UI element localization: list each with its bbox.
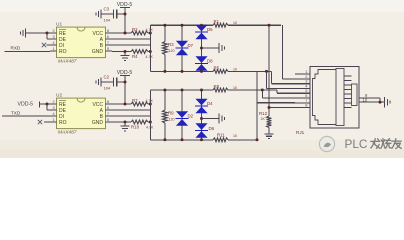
wire	[47, 33, 50, 39]
svg-text:C2: C2	[104, 75, 110, 80]
wire GND row	[112, 51, 131, 53]
IC U2 MAX487 RS-485 transceiver	[50, 92, 112, 135]
resistor R5	[213, 65, 237, 73]
wire B1 down	[256, 71, 258, 102]
node TXD	[11, 110, 21, 115]
wire GND row	[112, 121, 131, 123]
svg-text:R2: R2	[132, 27, 138, 32]
junction	[46, 103, 49, 106]
watermark text PLC fans	[345, 137, 402, 151]
svg-text:RO: RO	[59, 120, 67, 126]
junction	[163, 138, 166, 141]
connector RJ1 contact carrier	[336, 69, 344, 126]
resistor R8	[213, 84, 237, 92]
junction	[268, 106, 271, 109]
svg-text:TXD: TXD	[11, 110, 21, 115]
svg-text:R7: R7	[132, 98, 138, 103]
connector RJ1 pins 1-8	[295, 69, 310, 108]
wire top rail A	[150, 24, 213, 26]
svg-text:D7: D7	[188, 43, 194, 48]
background paper	[0, 0, 404, 158]
resistor R10	[131, 120, 154, 129]
junction	[200, 138, 203, 141]
wire	[228, 89, 277, 91]
wire	[228, 70, 272, 72]
ground (RJ45 shield)	[385, 97, 391, 107]
wire to ground	[202, 118, 220, 120]
junction	[149, 32, 152, 35]
junction	[200, 47, 203, 50]
watermark logo circle	[319, 136, 334, 151]
svg-text:10: 10	[233, 21, 237, 25]
wire RE	[26, 32, 51, 34]
svg-text:2: 2	[53, 29, 55, 33]
svg-text:MAX487: MAX487	[58, 130, 77, 136]
connector RJ1 latch	[352, 84, 358, 106]
wire VCC row	[112, 103, 131, 105]
capacitor C2	[104, 75, 117, 91]
svg-text:1K: 1K	[261, 117, 266, 121]
junction	[181, 138, 184, 141]
IC U1 MAX487 RS-485 transceiver	[50, 21, 112, 64]
ground (top decoupling)	[96, 10, 101, 19]
svg-text:RXD: RXD	[11, 46, 21, 51]
svg-text:5: 5	[107, 47, 109, 51]
TVS diode D4	[195, 90, 213, 119]
svg-text:R1: R1	[214, 19, 220, 24]
wire	[228, 139, 258, 141]
wire	[148, 32, 150, 34]
junction	[149, 103, 152, 106]
svg-text:5: 5	[107, 118, 109, 122]
svg-text:GND: GND	[92, 49, 104, 55]
wire	[101, 81, 114, 83]
resistor R12 (bias)	[259, 108, 271, 134]
svg-text:U1: U1	[56, 21, 62, 27]
wire A row	[112, 38, 150, 40]
junction	[200, 89, 203, 92]
svg-text:7: 7	[107, 41, 109, 45]
junction	[46, 32, 49, 35]
wire RO to RXD	[5, 51, 51, 53]
junction	[256, 138, 259, 141]
wire B row	[112, 44, 150, 46]
svg-text:10: 10	[363, 97, 368, 102]
junction	[124, 121, 127, 124]
svg-text:R9: R9	[168, 111, 174, 116]
junction	[200, 117, 203, 120]
resistor R1	[213, 19, 237, 27]
junction	[268, 24, 271, 27]
junction	[163, 89, 166, 92]
junction	[261, 89, 264, 92]
ground (RE/DE tie)	[20, 29, 25, 38]
svg-text:4: 4	[53, 112, 55, 116]
svg-text:4: 4	[53, 41, 55, 45]
wire B2 to RJ45 pin 7	[257, 103, 295, 140]
svg-text:4.7K: 4.7K	[146, 55, 154, 59]
no-connect X pin DI	[42, 43, 50, 47]
svg-text:RJ1: RJ1	[296, 130, 305, 135]
junction	[124, 32, 127, 35]
svg-text:1: 1	[53, 47, 55, 51]
node VDD-5 (U2 enable)	[18, 102, 40, 108]
TVS diode D7	[176, 25, 194, 71]
svg-text:D5: D5	[207, 27, 213, 32]
TVS diode D8	[195, 48, 213, 71]
junction	[181, 70, 184, 73]
wire pin 9	[359, 93, 380, 98]
resistor R11	[213, 133, 237, 142]
wire B1 to RJ45 pin 3	[272, 71, 296, 83]
svg-text:R4: R4	[132, 54, 138, 59]
connector RJ1 socket silhouette	[313, 70, 337, 125]
svg-text:3: 3	[53, 106, 55, 110]
svg-text:C3: C3	[104, 7, 110, 12]
svg-text:104: 104	[104, 18, 111, 23]
svg-text:VDD-5: VDD-5	[18, 102, 34, 108]
svg-text:4.7K: 4.7K	[146, 28, 154, 32]
svg-text:D6: D6	[209, 126, 215, 131]
svg-text:3: 3	[53, 35, 55, 39]
svg-text:8: 8	[107, 29, 109, 33]
resistor R3 (termination)	[163, 25, 175, 71]
wire left vertical (loop)	[149, 25, 151, 71]
svg-text:R12: R12	[259, 111, 268, 116]
connector RJ1 designator	[296, 130, 305, 135]
node VDD-5 (top)	[117, 2, 133, 8]
junction	[124, 13, 127, 16]
ground (bottom decoupling)	[96, 78, 101, 87]
wire top rail A2	[150, 89, 213, 91]
svg-text:1: 1	[53, 118, 55, 122]
wire A2 to RJ45 pin 5	[277, 90, 295, 93]
svg-text:R8: R8	[214, 84, 220, 89]
junction	[149, 50, 152, 53]
wire VDD vertical	[124, 76, 126, 105]
wire	[101, 13, 114, 15]
ground (TVS midpoint bottom)	[219, 113, 225, 123]
wire bottom rail B2	[150, 139, 213, 141]
wire	[148, 121, 150, 123]
wire	[148, 103, 150, 105]
junction	[124, 50, 127, 53]
ground (U1 GND pin)	[121, 52, 130, 61]
wire B1 to RJ45 pin 4	[267, 71, 296, 88]
junction	[181, 24, 184, 27]
junction	[163, 24, 166, 27]
TVS diode D2	[176, 90, 194, 140]
wire A1 to RJ45 pin 8	[269, 25, 295, 107]
svg-text:R5: R5	[214, 65, 220, 70]
junction	[124, 81, 127, 84]
junction	[124, 103, 127, 106]
svg-text:R10: R10	[131, 125, 140, 130]
junction	[265, 70, 268, 73]
connector RJ1 contacts	[344, 76, 352, 108]
svg-text:120: 120	[169, 49, 175, 53]
svg-text:D2: D2	[188, 114, 194, 119]
junction	[379, 101, 382, 104]
svg-text:7: 7	[107, 112, 109, 116]
wire	[148, 51, 150, 53]
svg-text:D4: D4	[207, 101, 213, 106]
svg-text:4.7K: 4.7K	[146, 99, 154, 103]
svg-text:104: 104	[104, 86, 111, 91]
svg-text:R11: R11	[217, 133, 225, 138]
svg-text:10: 10	[233, 134, 237, 138]
svg-text:R3: R3	[168, 42, 174, 47]
no-connect X pin RO	[38, 120, 50, 124]
wire B row	[112, 115, 150, 117]
svg-text:10: 10	[233, 67, 237, 71]
wire DI to TXD	[2, 115, 50, 117]
svg-text:2: 2	[53, 100, 55, 104]
svg-text:6: 6	[107, 106, 109, 110]
wire A row	[112, 109, 150, 111]
svg-text:U2: U2	[56, 92, 62, 98]
wire	[47, 104, 50, 110]
ground (TVS midpoint top)	[219, 43, 225, 53]
wire RE	[40, 103, 51, 105]
wire VCC row	[112, 32, 131, 34]
resistor R9 (termination)	[163, 90, 175, 140]
wire	[117, 81, 125, 83]
svg-text:RO: RO	[59, 49, 67, 55]
wire A2 to RJ45 pin 6	[262, 90, 295, 98]
wire VDD vertical	[124, 8, 126, 34]
TVS diode D6	[195, 119, 214, 140]
node VDD-5 (mid)	[117, 70, 133, 76]
svg-text:120: 120	[169, 118, 175, 122]
resistor R2	[131, 27, 153, 35]
svg-text:8: 8	[107, 100, 109, 104]
ground (R12)	[265, 134, 274, 139]
wire	[117, 13, 125, 15]
resistor R7	[131, 98, 153, 106]
svg-text:PLC: PLC	[345, 137, 368, 151]
wire to ground	[202, 47, 220, 49]
wire left vertical (loop2)	[149, 90, 151, 140]
capacitor C3	[104, 7, 117, 23]
svg-text:GND: GND	[92, 120, 104, 126]
wire A1 to RJ45 pin 2	[282, 25, 295, 79]
junction	[163, 70, 166, 73]
svg-text:MAX487: MAX487	[58, 59, 77, 65]
svg-text:10: 10	[233, 86, 237, 90]
junction	[149, 121, 152, 124]
TVS diode D5	[195, 25, 213, 48]
wire bottom rail B	[150, 70, 213, 72]
svg-text:D8: D8	[207, 59, 213, 64]
junction	[200, 70, 203, 73]
wire	[228, 24, 281, 26]
junction	[181, 89, 184, 92]
connector RJ1 outer box	[310, 67, 359, 129]
svg-text:6: 6	[107, 35, 109, 39]
ground (U2 GND pin)	[121, 122, 130, 131]
wire pin 10	[359, 97, 384, 102]
node RXD	[11, 46, 21, 51]
resistor R4	[131, 50, 153, 59]
junction	[200, 24, 203, 27]
